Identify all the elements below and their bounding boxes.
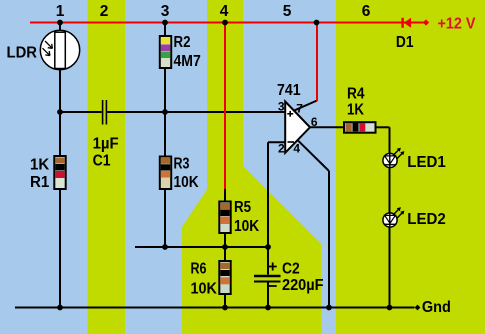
svg-text:741: 741 — [277, 82, 301, 99]
svg-text:LDR: LDR — [7, 45, 38, 62]
svg-text:C2: C2 — [282, 261, 300, 278]
svg-text:2: 2 — [278, 142, 285, 156]
svg-text:1µF: 1µF — [93, 135, 119, 152]
svg-text:R1: R1 — [30, 174, 49, 191]
svg-text:3: 3 — [278, 100, 285, 114]
svg-text:6: 6 — [362, 3, 371, 20]
svg-text:5: 5 — [283, 3, 292, 20]
svg-text:R4: R4 — [347, 86, 365, 103]
svg-text:R5: R5 — [234, 199, 251, 216]
svg-text:4M7: 4M7 — [174, 53, 201, 70]
svg-text:7: 7 — [296, 102, 303, 116]
svg-text:Gnd: Gnd — [422, 299, 451, 316]
svg-text:LED1: LED1 — [407, 154, 446, 171]
svg-text:220µF: 220µF — [282, 277, 324, 294]
svg-text:10K: 10K — [234, 218, 260, 235]
svg-text:+12 V: +12 V — [438, 16, 476, 33]
svg-text:10K: 10K — [174, 174, 199, 191]
svg-text:LED2: LED2 — [407, 211, 446, 228]
svg-text:10K: 10K — [191, 281, 218, 298]
svg-text:D1: D1 — [396, 34, 414, 51]
svg-text:C1: C1 — [93, 152, 111, 169]
svg-text:3: 3 — [161, 3, 170, 20]
svg-text:1: 1 — [56, 3, 65, 20]
svg-text:R3: R3 — [174, 155, 190, 172]
svg-text:1K: 1K — [347, 102, 364, 119]
svg-text:2: 2 — [100, 3, 109, 20]
svg-text:R2: R2 — [174, 34, 191, 51]
svg-text:1K: 1K — [30, 156, 50, 173]
svg-text:4: 4 — [220, 3, 229, 20]
svg-text:6: 6 — [311, 115, 318, 129]
svg-text:R6: R6 — [191, 261, 207, 278]
svg-text:4: 4 — [293, 142, 300, 156]
